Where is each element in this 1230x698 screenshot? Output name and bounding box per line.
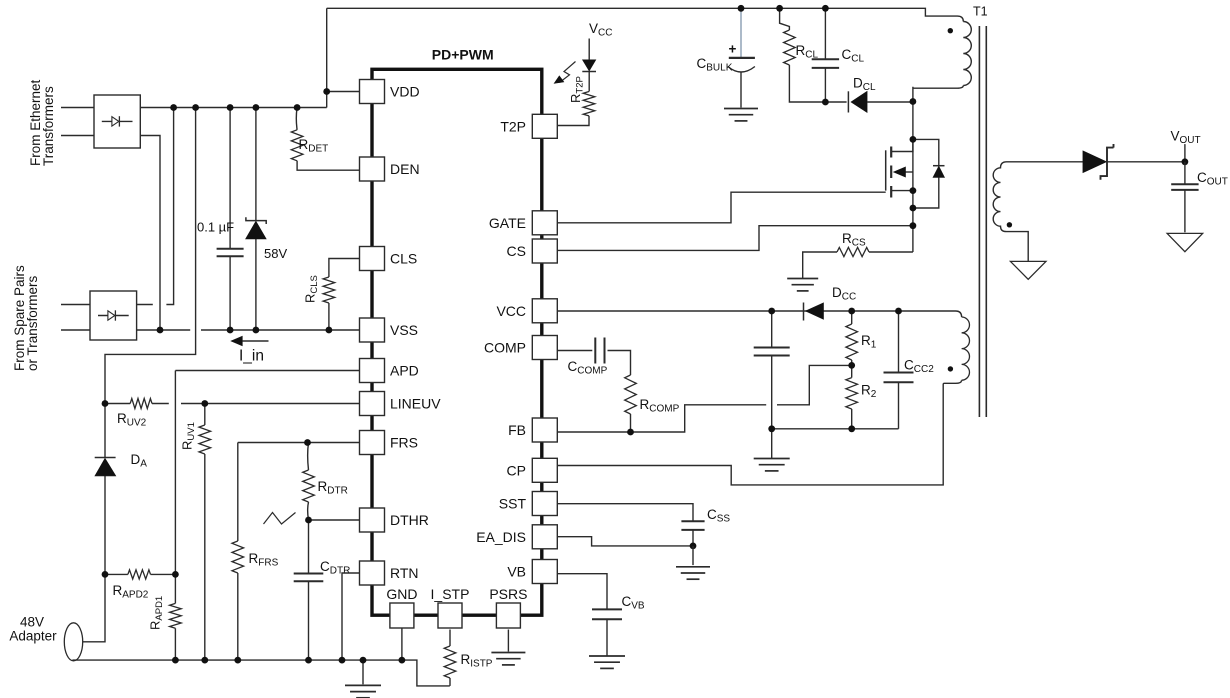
svg-text:PD+PWM: PD+PWM [432, 47, 494, 63]
svg-text:I_in: I_in [239, 348, 264, 365]
svg-text:0.1 µF: 0.1 µF [197, 220, 234, 235]
svg-text:VDD: VDD [390, 84, 420, 100]
svg-text:APD: APD [390, 363, 419, 379]
svg-text:T1: T1 [973, 5, 988, 19]
svg-text:T2P: T2P [500, 118, 526, 134]
svg-text:LINEUV: LINEUV [390, 396, 441, 412]
svg-text:CLS: CLS [390, 251, 417, 267]
svg-text:VSS: VSS [390, 322, 418, 338]
svg-text:RTN: RTN [390, 565, 419, 581]
svg-text:58V: 58V [264, 246, 287, 261]
svg-text:PSRS: PSRS [489, 586, 527, 602]
svg-text:48V: 48V [20, 615, 44, 630]
svg-text:FRS: FRS [390, 435, 418, 451]
svg-text:GND: GND [386, 586, 417, 602]
svg-text:DTHR: DTHR [390, 512, 429, 528]
svg-text:Adapter: Adapter [9, 629, 57, 644]
svg-text:EA_DIS: EA_DIS [476, 529, 526, 545]
svg-text:SST: SST [499, 496, 527, 512]
svg-text:GATE: GATE [489, 215, 526, 231]
svg-text:FB: FB [508, 422, 526, 438]
svg-text:CS: CS [507, 243, 526, 259]
svg-text:Transformers: Transformers [41, 86, 56, 166]
svg-text:or Transformers: or Transformers [25, 275, 40, 371]
svg-text:CP: CP [507, 462, 526, 478]
svg-text:DEN: DEN [390, 161, 420, 177]
svg-text:VB: VB [507, 564, 526, 580]
svg-text:I_STP: I_STP [431, 586, 470, 602]
svg-text:+: + [729, 42, 737, 57]
svg-text:VCC: VCC [496, 303, 526, 319]
svg-text:COMP: COMP [484, 340, 526, 356]
